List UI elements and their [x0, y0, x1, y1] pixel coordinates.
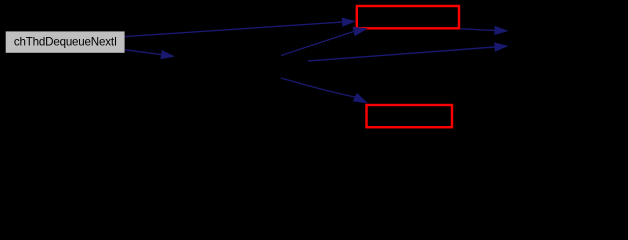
svg-text:chThdDequeueNextI: chThdDequeueNextI — [14, 35, 117, 48]
